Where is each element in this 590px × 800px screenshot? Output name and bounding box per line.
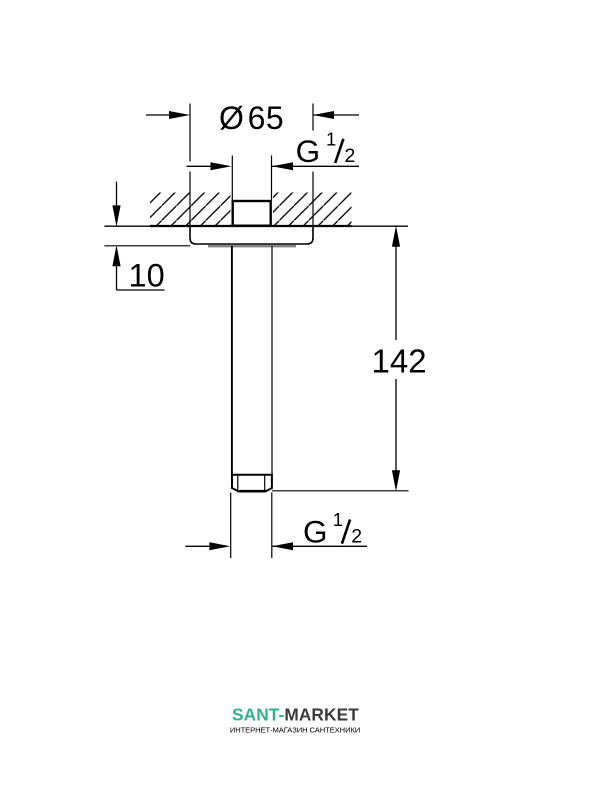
ceiling line	[104, 225, 408, 227]
svg-text:2: 2	[345, 145, 356, 167]
flange shadow gray stripe	[208, 245, 296, 248]
pipe end fitting	[232, 475, 272, 492]
square fitting in ceiling	[233, 201, 271, 226]
svg-text:SANT-MARKET: SANT-MARKET	[232, 704, 359, 724]
dim Ø65: extension line left	[189, 104, 191, 226]
dim G1/2 bottom: extension lines	[231, 493, 272, 559]
dim G1/2 top: text	[296, 129, 356, 169]
svg-text:2: 2	[351, 525, 362, 547]
dim 10: upper pointer	[112, 182, 120, 227]
ceiling line thick under hatch	[150, 225, 352, 227]
pipe left edge	[231, 246, 233, 475]
ceiling hatch left	[150, 193, 231, 226]
dim Ø65: extension line right	[312, 104, 314, 226]
flange	[190, 226, 313, 244]
svg-text:10: 10	[129, 258, 165, 294]
dim G1/2 top: extension lines	[232, 156, 271, 201]
ceiling hatch right	[273, 193, 352, 226]
dim 10: lower pointer + leader	[112, 245, 164, 290]
dim G1/2 bottom: dimension line + arrows	[185, 542, 367, 550]
dim G1/2 top: dimension line + arrows	[186, 162, 359, 170]
svg-text:1: 1	[333, 509, 343, 530]
dim Ø65: dimension line + arrows	[146, 111, 359, 119]
dim 142: dimension line + arrows	[392, 226, 400, 492]
svg-text:1: 1	[326, 129, 336, 150]
svg-text:Ø 65: Ø 65	[219, 100, 284, 136]
svg-text:G: G	[303, 513, 328, 549]
lower left line	[104, 245, 190, 247]
svg-text:ИНТЕРНЕТ-МАГАЗИН САНТЕХНИКИ: ИНТЕРНЕТ-МАГАЗИН САНТЕХНИКИ	[230, 725, 360, 734]
svg-text:142: 142	[372, 342, 427, 379]
pipe right edge	[271, 246, 273, 475]
dim G1/2 bottom: text	[303, 509, 362, 549]
dim 142: pipe-end extension line	[272, 490, 409, 492]
svg-text:G: G	[296, 133, 321, 169]
